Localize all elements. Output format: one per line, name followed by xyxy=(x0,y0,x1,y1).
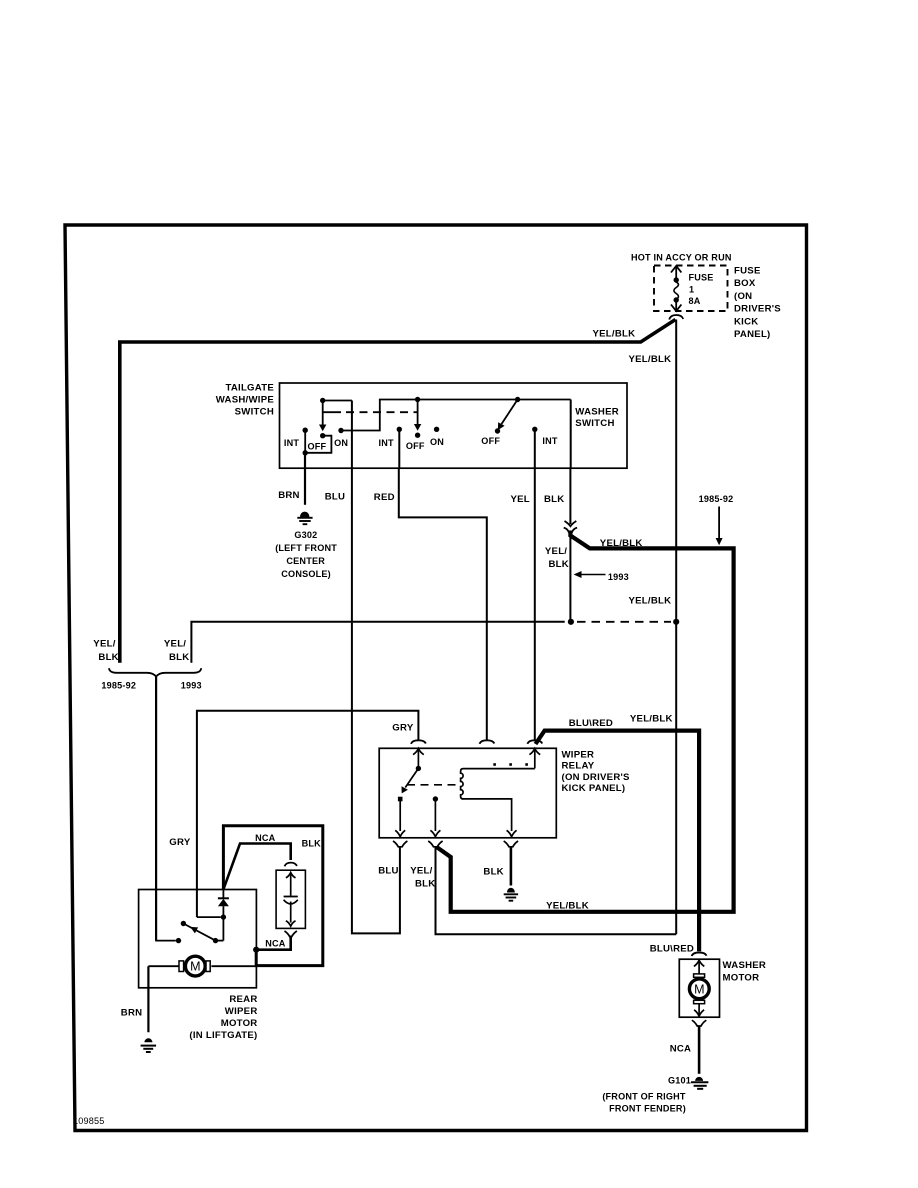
relay pin 2 connector (RED, top) xyxy=(480,740,495,744)
contact OFF 1 with loop to ground node xyxy=(305,433,331,453)
svg-text:PANEL): PANEL) xyxy=(734,329,771,340)
svg-text:OFF: OFF xyxy=(308,441,327,451)
svg-text:BLU\RED: BLU\RED xyxy=(569,718,613,729)
wire YEL/BLK 1993 return (junction down to relay pin) xyxy=(436,847,677,935)
washer motor internals xyxy=(689,960,709,1016)
label INT 1 xyxy=(284,438,299,448)
border frame xyxy=(65,225,807,1131)
mechanical link dashed (switch 1 to switch 2) xyxy=(323,411,418,413)
svg-text:YEL/: YEL/ xyxy=(93,639,115,650)
svg-text:YEL: YEL xyxy=(511,494,530,505)
rear wiper motor box xyxy=(139,890,257,988)
svg-text:INT: INT xyxy=(542,436,557,446)
wire GRY inside motor (to diode node) xyxy=(197,914,226,919)
svg-text:1993: 1993 xyxy=(608,572,629,582)
label BLK (rear) xyxy=(302,838,322,848)
svg-text:HOT IN ACCY OR RUN: HOT IN ACCY OR RUN xyxy=(631,253,732,263)
label GRY (upper) xyxy=(392,722,414,733)
wire NCA (diode node up over to breaker) xyxy=(224,844,297,889)
svg-text:8A: 8A xyxy=(689,296,701,306)
svg-text:BRN: BRN xyxy=(278,490,300,501)
contact ON 1 (to section 2 feed) xyxy=(338,400,570,434)
svg-text:KICK PANEL): KICK PANEL) xyxy=(562,783,626,794)
svg-text:M: M xyxy=(190,960,200,974)
label OFF 2 xyxy=(406,441,425,451)
label GRY (lower) xyxy=(169,837,191,848)
wire RED (switch INT2 down to relay) xyxy=(399,468,487,740)
svg-text:INT: INT xyxy=(378,438,393,448)
svg-text:BLK: BLK xyxy=(98,652,118,663)
svg-text:BLK: BLK xyxy=(483,867,503,878)
label BLU (relay output) xyxy=(378,865,398,876)
label ON 2 xyxy=(430,437,444,447)
svg-text:TAILGATE: TAILGATE xyxy=(225,382,274,393)
svg-text:M: M xyxy=(694,982,704,996)
wire YEL (switch INT3 down to relay) xyxy=(534,468,536,740)
label YEL/ BLK (at connector) xyxy=(545,546,569,570)
svg-text:BLU: BLU xyxy=(325,491,345,502)
fuse FUSE 1 8A xyxy=(671,266,681,311)
relay pin BLK connector (bottom) xyxy=(504,841,518,847)
svg-text:CONSOLE): CONSOLE) xyxy=(281,569,331,579)
svg-text:BLU\RED: BLU\RED xyxy=(650,944,694,955)
svg-text:BRN: BRN xyxy=(121,1008,143,1019)
svg-text:YEL/: YEL/ xyxy=(164,639,186,650)
relay pin 1 connector (GRY, top) xyxy=(411,740,426,768)
ground (rear motor BRN) xyxy=(141,1038,157,1052)
svg-text:ON: ON xyxy=(430,437,444,447)
contact INT washer (to YEL) xyxy=(532,427,537,468)
label YEL/BLK (vertical feed) xyxy=(629,354,672,365)
inline connector block (rear washer feed) xyxy=(276,870,305,937)
label G302 (LEFT FRONT CENTER CONSOLE) xyxy=(275,530,337,579)
svg-text:NCA: NCA xyxy=(670,1043,692,1054)
wire YEL/BLK inside motor (to park contact) xyxy=(156,890,181,944)
svg-text:(ON DRIVER'S: (ON DRIVER'S xyxy=(562,772,631,783)
label NCA xyxy=(670,1043,692,1054)
svg-text:G302: G302 xyxy=(294,530,317,540)
svg-text:WASHER: WASHER xyxy=(723,960,767,971)
svg-text:SWITCH: SWITCH xyxy=(235,406,274,417)
ground G302 symbol xyxy=(297,512,312,525)
wiper switch section 1: feed node xyxy=(320,398,352,403)
svg-text:GRY: GRY xyxy=(169,837,191,848)
wire NCA (washer motor to ground) xyxy=(698,1026,701,1074)
svg-text:G101: G101 xyxy=(668,1075,691,1085)
fuse box location label xyxy=(734,266,781,341)
relay contact (to BLU pin) xyxy=(395,797,405,837)
svg-text:BLK: BLK xyxy=(169,652,189,663)
svg-text:YEL/: YEL/ xyxy=(545,546,567,557)
wire BLU (switch ON1 feed down to relay) xyxy=(352,401,400,934)
connector below fuse xyxy=(669,315,683,320)
svg-text:WIPER: WIPER xyxy=(562,750,595,761)
svg-text:NCA: NCA xyxy=(255,833,276,843)
svg-text:REAR: REAR xyxy=(229,994,257,1005)
svg-text:FUSE: FUSE xyxy=(689,273,714,283)
label 1985-92 xyxy=(101,681,136,691)
svg-text:MOTOR: MOTOR xyxy=(221,1018,258,1029)
svg-text:RED: RED xyxy=(374,492,395,503)
relay pin BLU connector (bottom) xyxy=(393,841,407,847)
label OFF washer xyxy=(481,436,500,446)
ground G101 xyxy=(691,1077,708,1089)
svg-text:SWITCH: SWITCH xyxy=(575,418,614,429)
label YEL/BLK (1993 fuse drop) xyxy=(629,595,672,606)
contact ON 2 xyxy=(434,427,439,432)
label INT 2 xyxy=(378,438,393,448)
label BRN xyxy=(121,1008,143,1019)
svg-text:WASHER: WASHER xyxy=(575,406,619,417)
svg-text:109855: 109855 xyxy=(73,1116,105,1126)
label WIPER RELAY (ON DRIVER'S KICK PANEL) xyxy=(562,750,631,795)
label G101 (FRONT OF RIGHT FRONT FENDER) xyxy=(602,1075,691,1113)
svg-text:FUSE: FUSE xyxy=(734,266,761,277)
wiper switch arm 2 xyxy=(414,400,421,431)
svg-text:BLK: BLK xyxy=(302,838,322,848)
wire GRY (relay pin1 to rear wiper motor) xyxy=(197,711,419,917)
svg-text:1: 1 xyxy=(689,285,694,295)
svg-text:(ON: (ON xyxy=(734,291,752,302)
brace (model year merge) xyxy=(109,668,201,677)
svg-text:BLK: BLK xyxy=(544,494,564,505)
svg-text:FRONT FENDER): FRONT FENDER) xyxy=(609,1104,686,1114)
svg-text:NCA: NCA xyxy=(265,938,286,948)
wiper switch arm 1 xyxy=(319,401,326,432)
ground (relay BLK) xyxy=(504,888,518,901)
fuse value labels FUSE 1 8A xyxy=(689,273,714,307)
label REAR WIPER MOTOR (IN LIFTGATE) xyxy=(189,994,257,1041)
relay pin YEL/BLK connector (bottom) xyxy=(428,841,442,847)
relay contact (to YEL/BLK pin) xyxy=(430,796,440,836)
label YEL/ BLK (1993 brace lead) xyxy=(164,639,190,664)
svg-text:BLU: BLU xyxy=(378,865,398,876)
svg-text:BLK: BLK xyxy=(549,559,569,570)
motor M (rear wiper) xyxy=(148,956,256,976)
callout arrow 1993 xyxy=(574,571,629,582)
junction node (1993 splice) xyxy=(568,619,680,625)
svg-text:MOTOR: MOTOR xyxy=(723,973,760,984)
label BLU\RED (upper) xyxy=(569,718,613,729)
washer motor box xyxy=(679,959,719,1017)
diagram number 109855 xyxy=(73,1116,105,1126)
svg-text:YEL/BLK: YEL/BLK xyxy=(629,354,672,365)
svg-text:YEL/BLK: YEL/BLK xyxy=(630,713,673,724)
diode (park circuit) xyxy=(218,890,229,941)
svg-text:1993: 1993 xyxy=(181,681,202,691)
wire YEL/BLK merged (brace to rear wiper motor) xyxy=(155,677,157,941)
wiper switch section 2: feed node xyxy=(415,397,420,402)
park switch arm xyxy=(181,921,224,944)
fuse box (dashed outline) xyxy=(654,266,728,312)
relay armature xyxy=(402,766,422,794)
wire YEL/BLK thick 1985-92 (BLK connector to relay pin, via right rail) xyxy=(436,531,733,912)
contact INT 1 xyxy=(303,428,308,456)
svg-text:RELAY: RELAY xyxy=(562,761,595,772)
label YEL xyxy=(511,494,530,505)
label BLU\RED (washer motor feed) xyxy=(650,944,694,955)
label NCA (lower) xyxy=(265,938,286,948)
label YEL/ BLK (relay output) xyxy=(410,865,435,889)
svg-text:(IN LIFTGATE): (IN LIFTGATE) xyxy=(189,1030,257,1041)
washer motor connector (top) xyxy=(692,953,707,957)
label WASHER MOTOR xyxy=(723,960,767,984)
svg-text:KICK: KICK xyxy=(734,316,758,327)
svg-text:(LEFT FRONT: (LEFT FRONT xyxy=(275,543,337,553)
label YEL/ BLK (1985-92 brace lead) xyxy=(93,639,119,664)
label BLK (relay ground) xyxy=(483,867,503,878)
label YEL/BLK (top right rail) xyxy=(600,538,643,549)
svg-text:INT: INT xyxy=(284,438,299,448)
svg-text:YEL/: YEL/ xyxy=(410,865,432,876)
wire YEL/BLK 1993 thin (connector down to junction) xyxy=(569,531,571,622)
relay pin 3 connector (YEL + BLU\RED, top) xyxy=(527,740,542,768)
label RED xyxy=(374,492,395,503)
tailgate wash/wipe switch box xyxy=(280,383,628,468)
connector in BLK wire (switch output) xyxy=(564,468,577,532)
svg-text:CENTER: CENTER xyxy=(286,556,325,566)
label 1993 xyxy=(181,681,202,691)
label BLU xyxy=(325,491,345,502)
label OFF 1 xyxy=(308,441,327,451)
contact OFF washer xyxy=(495,428,500,433)
relay mechanical link (dashed) xyxy=(407,784,457,786)
washer switch arm xyxy=(498,397,521,430)
svg-text:YEL/BLK: YEL/BLK xyxy=(546,901,589,912)
label BRN xyxy=(278,490,300,501)
wire BRN (motor to ground) xyxy=(147,966,149,1032)
svg-text:OFF: OFF xyxy=(481,436,500,446)
callout arrow 1985-92 xyxy=(699,494,734,545)
wire BLK to ground xyxy=(510,847,513,886)
wire YEL/BLK thick bottom label xyxy=(546,901,589,912)
contact INT 2 (to RED) xyxy=(397,427,402,468)
wire YEL/BLK 1985-92 feed (fuse to left rail) xyxy=(120,320,676,663)
svg-text:YEL/BLK: YEL/BLK xyxy=(629,595,672,606)
wire NCA (breaker to motor node) xyxy=(253,936,291,953)
wire BRN (INT1 down to ground) xyxy=(304,453,306,505)
node HOT IN ACCY OR RUN xyxy=(631,253,732,263)
svg-text:DRIVER'S: DRIVER'S xyxy=(734,304,781,315)
wire BLK thick loop (motor node to liftgate harness) xyxy=(223,826,322,966)
label WASHER SWITCH xyxy=(575,406,619,429)
label BLK xyxy=(544,494,564,505)
label NCA (upper) xyxy=(255,833,276,843)
label ON 1 xyxy=(334,438,348,448)
svg-text:OFF: OFF xyxy=(406,441,425,451)
wiper relay box xyxy=(379,748,556,838)
relay coil xyxy=(461,763,535,836)
svg-text:BOX: BOX xyxy=(734,278,756,289)
svg-text:WASH/WIPE: WASH/WIPE xyxy=(216,394,275,405)
label INT washer xyxy=(542,436,557,446)
svg-text:1985-92: 1985-92 xyxy=(101,681,136,691)
wire YEL/BLK 1993 feed (fuse straight down) xyxy=(675,320,677,935)
contact OFF 2 xyxy=(415,433,420,438)
svg-text:WIPER: WIPER xyxy=(225,1006,258,1017)
svg-text:BLK: BLK xyxy=(415,878,435,889)
svg-text:YEL/BLK: YEL/BLK xyxy=(600,538,643,549)
label TAILGATE WASH/WIPE SWITCH xyxy=(216,382,275,417)
svg-text:(FRONT OF RIGHT: (FRONT OF RIGHT xyxy=(602,1092,686,1102)
label YEL/BLK (horizontal feed) xyxy=(593,328,636,339)
svg-text:YEL/BLK: YEL/BLK xyxy=(593,328,636,339)
svg-text:ON: ON xyxy=(334,438,348,448)
svg-text:GRY: GRY xyxy=(392,722,414,733)
wire splice to 1993 brace lead xyxy=(191,622,564,663)
wire BLU\RED thick (right rail to relay pin and washer motor) xyxy=(536,731,700,952)
svg-text:1985-92: 1985-92 xyxy=(699,494,734,504)
washer motor connector (bottom) xyxy=(692,1020,706,1026)
label YEL/BLK (lower fuse drop) xyxy=(630,713,673,724)
wire BLK inside switch (feed corner down) xyxy=(570,400,572,469)
